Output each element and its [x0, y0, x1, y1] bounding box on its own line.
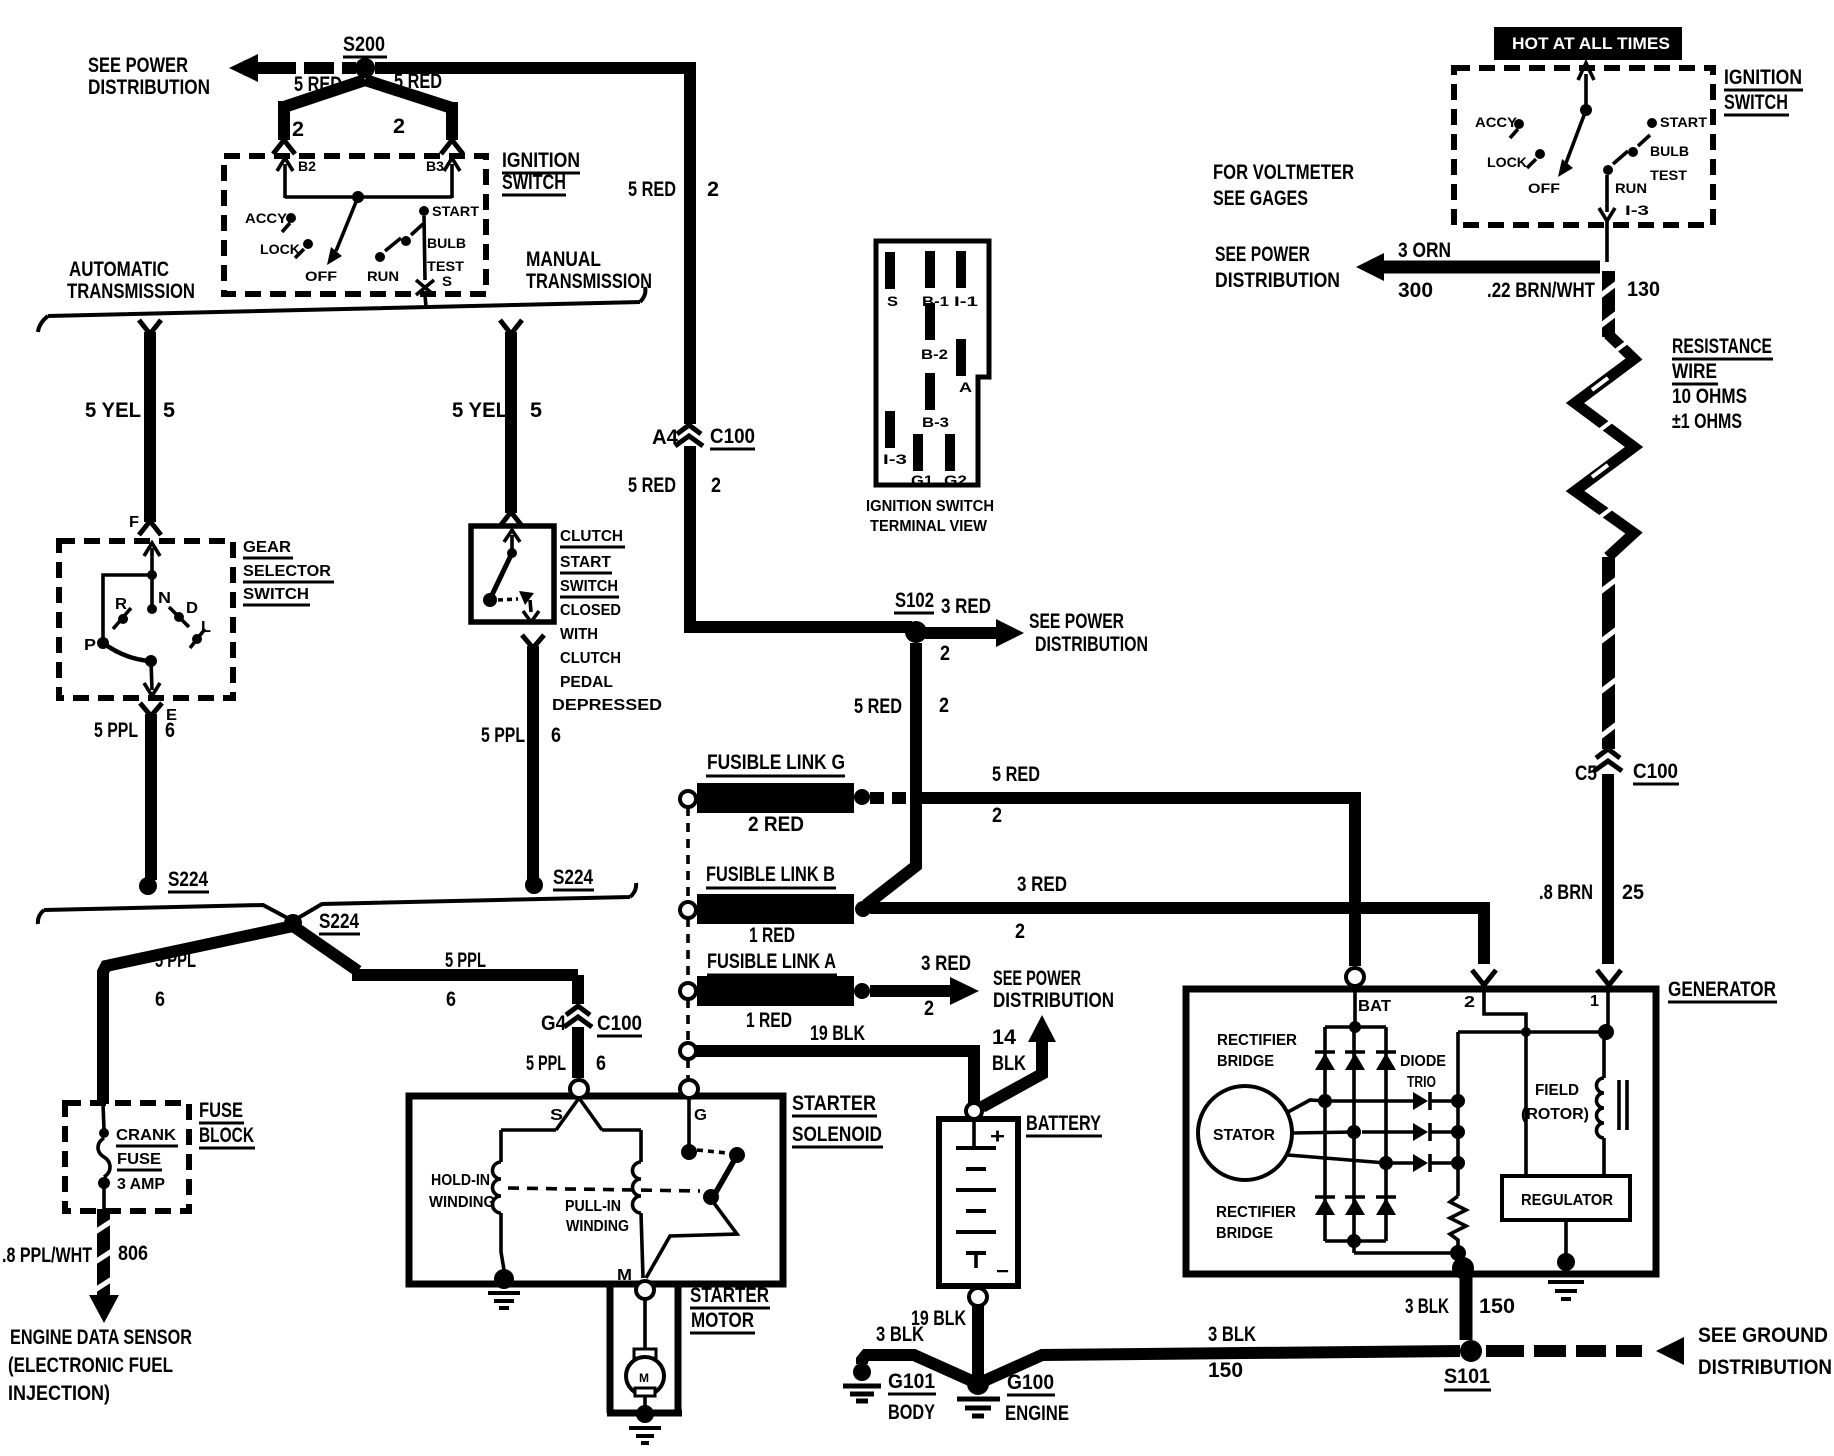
svg-text:WITH: WITH — [560, 626, 598, 643]
svg-text:SWITCH: SWITCH — [243, 586, 309, 603]
label SEE POWER DISTRIBUTION (top left) — [88, 54, 210, 99]
svg-text:1 RED: 1 RED — [749, 924, 795, 947]
wire: trio bus to terminal 1 — [1458, 986, 1608, 1032]
svg-text:3 BLK: 3 BLK — [876, 1323, 924, 1346]
wire: transmission select bus — [38, 287, 645, 332]
position RUN — [367, 238, 401, 284]
wire: S fork to windings — [501, 1098, 641, 1162]
svg-text:HOLD-IN: HOLD-IN — [431, 1172, 490, 1189]
terminal S — [570, 1080, 588, 1098]
diode trio bus — [1456, 1032, 1460, 1196]
svg-text:.8 PPL/WHT: .8 PPL/WHT — [2, 1244, 92, 1267]
svg-text:2: 2 — [924, 997, 934, 1020]
svg-text:GENERATOR: GENERATOR — [1668, 978, 1776, 1001]
svg-text:G1: G1 — [911, 472, 933, 488]
label FUSE BLOCK — [199, 1099, 255, 1148]
svg-text:S102: S102 — [895, 589, 934, 612]
svg-text:3 AMP: 3 AMP — [117, 1176, 165, 1193]
contact P — [84, 637, 109, 654]
pin B-2 — [925, 303, 935, 340]
svg-text:CRANK: CRANK — [116, 1127, 177, 1144]
svg-text:M: M — [639, 1371, 649, 1385]
svg-text:2: 2 — [1464, 994, 1475, 1011]
svg-text:BAT: BAT — [1358, 998, 1392, 1015]
wire: arrow S102 to power distribution — [925, 619, 1024, 647]
svg-text:FOR VOLTMETER: FOR VOLTMETER — [1213, 161, 1354, 184]
ignition switch (right) dashed box — [1454, 68, 1713, 225]
contact D — [169, 600, 198, 627]
label MANUAL TRANSMISSION — [526, 248, 652, 293]
svg-text:806: 806 — [118, 1242, 148, 1265]
svg-text:L: L — [201, 619, 211, 636]
node clutch pivot — [507, 548, 517, 558]
wire: movable contact to M — [646, 1199, 737, 1278]
svg-text:FUSIBLE LINK A: FUSIBLE LINK A — [707, 950, 836, 973]
svg-text:300: 300 — [1398, 279, 1433, 302]
svg-text:150: 150 — [1208, 1359, 1243, 1382]
svg-text:START: START — [560, 554, 612, 571]
pin A — [956, 339, 966, 376]
fusible link A — [680, 950, 870, 1032]
resistance wire zigzag — [1575, 334, 1634, 557]
node pivot — [145, 655, 157, 667]
svg-text:2: 2 — [940, 642, 950, 665]
svg-text:3 BLK: 3 BLK — [1405, 1295, 1449, 1318]
label BATTERY — [1026, 1112, 1102, 1136]
pin I-1 — [956, 251, 966, 288]
node rotor pivot (right switch) — [1580, 104, 1592, 116]
svg-text:SEE POWER: SEE POWER — [88, 54, 188, 77]
svg-text:CLUTCH: CLUTCH — [560, 528, 623, 545]
wire: B2-B3 common bar — [285, 195, 452, 199]
pin G1 — [913, 434, 923, 471]
svg-text:RESISTANCE: RESISTANCE — [1672, 335, 1772, 358]
svg-text:2: 2 — [707, 178, 719, 201]
wire: hold-in to ground — [501, 1213, 504, 1270]
pin G2 — [945, 434, 955, 471]
svg-text:ENGINE: ENGINE — [1005, 1402, 1069, 1425]
generator ground junction node — [1347, 1234, 1361, 1248]
terminal arrow inside clutch switch — [504, 530, 520, 553]
svg-text:2: 2 — [711, 474, 721, 497]
svg-text:DISTRIBUTION: DISTRIBUTION — [88, 76, 210, 99]
dashed contact gap — [697, 1150, 727, 1153]
svg-text:P: P — [84, 637, 96, 654]
svg-text:SWITCH: SWITCH — [502, 171, 566, 194]
svg-text:−: − — [996, 1260, 1009, 1283]
svg-text:6: 6 — [155, 988, 165, 1011]
svg-text:B-3: B-3 — [922, 414, 949, 430]
regulator ground — [1548, 1220, 1584, 1299]
fusible link B — [680, 863, 871, 947]
label AUTOMATIC TRANSMISSION — [67, 258, 195, 303]
splice S101 — [1444, 1340, 1491, 1390]
pin S — [885, 252, 895, 289]
wire: dashed arrow to power distribution — [229, 54, 356, 82]
svg-text:CLOSED: CLOSED — [560, 602, 621, 619]
svg-text:ENGINE DATA SENSOR: ENGINE DATA SENSOR — [10, 1326, 192, 1349]
svg-text:5 PPL: 5 PPL — [445, 949, 486, 972]
svg-text:SWITCH: SWITCH — [1724, 91, 1788, 114]
svg-text:HOT AT ALL TIMES: HOT AT ALL TIMES — [1512, 34, 1670, 53]
svg-text:FIELD: FIELD — [1535, 1082, 1579, 1099]
svg-text:6: 6 — [551, 724, 561, 747]
ignition switch (top left) dashed box — [224, 156, 486, 294]
dashed wire joining fusible link feed ends — [686, 807, 690, 1080]
svg-text:R: R — [115, 596, 127, 613]
position RUN (right) — [1603, 151, 1647, 196]
svg-text:5 RED: 5 RED — [394, 70, 442, 93]
svg-text:FUSIBLE LINK B: FUSIBLE LINK B — [706, 863, 835, 886]
svg-text:2: 2 — [992, 804, 1002, 827]
svg-text:PEDAL: PEDAL — [560, 674, 613, 691]
svg-text:WINDING: WINDING — [566, 1218, 629, 1235]
wire: to P contact — [103, 575, 152, 638]
label SEE POWER DISTRIBUTION (S102) — [1029, 610, 1148, 656]
position ACCY (right) — [1475, 114, 1524, 138]
label SEE POWER DISTRIBUTION (right) — [1215, 243, 1340, 292]
terminal BAT — [1346, 968, 1364, 986]
svg-text:WINDING: WINDING — [429, 1194, 495, 1211]
label CRANK FUSE 3 AMP — [116, 1127, 178, 1193]
svg-text:BULB: BULB — [1650, 143, 1689, 159]
terminal G — [680, 1080, 698, 1098]
svg-text:AUTOMATIC: AUTOMATIC — [69, 258, 169, 281]
regulator box — [1502, 1176, 1630, 1220]
svg-text:SELECTOR: SELECTOR — [243, 563, 331, 580]
svg-text:GEAR: GEAR — [243, 539, 291, 556]
wire: hatched .22 BRN/WHT down — [1600, 271, 1617, 337]
ground at solenoid — [488, 1269, 520, 1308]
svg-text:IGNITION SWITCH: IGNITION SWITCH — [866, 498, 994, 515]
svg-text:C100: C100 — [1633, 760, 1678, 783]
svg-text:SEE GAGES: SEE GAGES — [1213, 187, 1308, 210]
wire: terminal 2 to regulator — [1484, 986, 1526, 1176]
rectifier columns — [1325, 1027, 1386, 1241]
svg-text:BATTERY: BATTERY — [1026, 1112, 1101, 1135]
wire: tent split below S200 (5 RED feeds B2/B3) — [284, 80, 452, 140]
dashed closed position — [498, 599, 518, 600]
svg-text:G100: G100 — [1007, 1371, 1054, 1394]
switch rotor lever to OFF — [327, 197, 358, 265]
svg-text:G: G — [694, 1107, 707, 1124]
svg-text:G4: G4 — [541, 1012, 566, 1035]
svg-text:IGNITION: IGNITION — [502, 149, 580, 172]
starter solenoid box — [409, 1096, 783, 1284]
svg-text:RECTIFIER: RECTIFIER — [1217, 1032, 1297, 1049]
node S200 — [355, 58, 375, 78]
svg-text:DISTRIBUTION: DISTRIBUTION — [993, 989, 1114, 1012]
node fixed contact A — [681, 1144, 697, 1160]
bottom diodes — [1315, 1197, 1396, 1215]
svg-text:RUN: RUN — [367, 268, 399, 284]
wire: 3 RED link B to generator terminal 2 — [870, 902, 1484, 964]
wire: pull-in to M — [641, 1213, 643, 1278]
svg-text:5 PPL: 5 PPL — [481, 724, 525, 747]
svg-text:PULL-IN: PULL-IN — [565, 1198, 621, 1215]
svg-text:I-3: I-3 — [883, 451, 907, 467]
wire: I-3 output down through box — [1599, 175, 1649, 262]
svg-text:G101: G101 — [888, 1370, 935, 1393]
svg-text:.8 BRN: .8 BRN — [1539, 881, 1593, 904]
wire: 3 BLK to G101 — [862, 1355, 972, 1381]
svg-text:ACCY: ACCY — [1475, 114, 1518, 130]
position START (right) — [1647, 114, 1707, 130]
svg-text:I-3: I-3 — [1625, 202, 1649, 218]
fixed contact arrowhead — [519, 591, 534, 605]
svg-text:TRIO: TRIO — [1407, 1074, 1436, 1091]
node movable contact — [703, 1189, 719, 1205]
label RESISTANCE WIRE 10 OHMS +/-1 OHMS — [1672, 335, 1773, 433]
solenoid contact from G — [687, 1098, 691, 1146]
label SEE POWER DISTRIBUTION (link A) — [993, 967, 1114, 1012]
node clutch open contact — [483, 593, 497, 607]
svg-text:5 YEL: 5 YEL — [452, 399, 508, 422]
svg-text:2 RED: 2 RED — [748, 813, 804, 836]
wire: lower bus — [38, 883, 636, 924]
wire: to N contact — [150, 575, 154, 605]
svg-text:5 RED: 5 RED — [992, 763, 1040, 786]
wire: 5 PPL into solenoid S — [572, 1027, 584, 1078]
svg-text:OFF: OFF — [305, 268, 338, 284]
label RECTIFIER BRIDGE (bottom) — [1216, 1204, 1296, 1242]
svg-text:START: START — [1660, 114, 1707, 130]
connector G4 / C100 — [541, 1006, 642, 1036]
splice S224 (left) — [139, 868, 209, 895]
svg-text:IGNITION: IGNITION — [1724, 66, 1802, 89]
svg-text:RUN: RUN — [1615, 180, 1647, 196]
svg-text:1 RED: 1 RED — [746, 1009, 792, 1032]
wire: .8 PPL/WHT hatched to engine data sensor — [89, 1209, 119, 1323]
svg-text:2: 2 — [393, 115, 405, 138]
svg-text:C100: C100 — [710, 425, 755, 448]
svg-text:25: 25 — [1622, 881, 1644, 904]
svg-text:S: S — [442, 273, 452, 289]
splice S224 (center) — [284, 910, 360, 934]
clutch lever — [491, 553, 512, 597]
connector A4 / C100 — [652, 425, 755, 449]
pull-in winding coil — [633, 1162, 642, 1213]
svg-text:14: 14 — [992, 1026, 1016, 1049]
label FOR VOLTMETER SEE GAGES — [1213, 161, 1354, 210]
wire: arrow 14 BLK to power distribution — [982, 1015, 1056, 1107]
svg-text:DIODE: DIODE — [1400, 1053, 1446, 1070]
svg-text:OFF: OFF — [1528, 180, 1561, 196]
svg-text:2: 2 — [292, 118, 304, 141]
label GEAR SELECTOR SWITCH — [243, 539, 334, 605]
svg-text:B2: B2 — [298, 158, 316, 174]
svg-text:S: S — [887, 293, 898, 309]
svg-text:DISTRIBUTION: DISTRIBUTION — [1698, 1356, 1832, 1379]
wire: hatched below zigzag to C5 — [1600, 557, 1617, 749]
solenoid lever — [712, 1152, 739, 1199]
label ENGINE DATA SENSOR (ELECTRONIC FUEL INJECTION) — [8, 1326, 192, 1405]
svg-text:I-1: I-1 — [954, 293, 978, 309]
crank fuse element — [98, 1104, 110, 1209]
svg-text:B3: B3 — [426, 158, 444, 174]
position BULB TEST (right) — [1628, 135, 1689, 183]
generator box — [1186, 989, 1656, 1274]
contact R — [113, 596, 131, 629]
svg-text:START: START — [432, 203, 479, 219]
fuse block dashed box — [65, 1103, 189, 1211]
wire: BAT stem and top rail — [1325, 986, 1386, 1027]
wire: 5 PPL from gear selector to S224 — [140, 703, 162, 880]
wire: contact to bottom arrow — [523, 600, 539, 622]
terminal B3 arrow inside switch — [426, 158, 460, 198]
node fixed contact B — [729, 1147, 745, 1163]
splice S102 — [894, 589, 934, 643]
svg-text:SEE POWER: SEE POWER — [1215, 243, 1310, 266]
svg-text:ACCY: ACCY — [245, 210, 288, 226]
svg-text:N: N — [158, 590, 171, 607]
svg-text:M: M — [617, 1267, 632, 1284]
wire: .8 BRN to generator terminal 1 — [1602, 774, 1614, 964]
label IGNITION SWITCH (right) — [1724, 66, 1803, 115]
wire: pivot to E terminal arrow — [144, 661, 160, 696]
svg-text:S224: S224 — [553, 866, 593, 889]
label HOLD-IN WINDING — [429, 1172, 495, 1211]
position START — [419, 203, 479, 219]
starter motor enclosure — [607, 1284, 682, 1413]
svg-text:BLOCK: BLOCK — [199, 1124, 254, 1147]
selector lever P to pivot — [103, 643, 150, 661]
contact L — [190, 619, 211, 648]
rotor lever to OFF (right switch) — [1558, 110, 1586, 177]
wire: 5 YEL manual branch — [500, 320, 522, 526]
svg-text:REGULATOR: REGULATOR — [1521, 1192, 1613, 1209]
terminal 2 fishtail — [1464, 970, 1496, 1011]
svg-text:TRANSMISSION: TRANSMISSION — [67, 280, 195, 303]
svg-text:FUSIBLE LINK G: FUSIBLE LINK G — [707, 751, 845, 774]
svg-text:SEE POWER: SEE POWER — [1029, 610, 1124, 633]
svg-text:5 RED: 5 RED — [628, 474, 676, 497]
svg-text:3 BLK: 3 BLK — [1208, 1323, 1256, 1346]
svg-text:BULB: BULB — [427, 235, 466, 251]
ground G100 junction — [967, 1373, 989, 1395]
svg-text:.22 BRN/WHT: .22 BRN/WHT — [1487, 279, 1595, 302]
svg-text:6: 6 — [165, 719, 175, 742]
svg-text:6: 6 — [596, 1052, 606, 1075]
svg-text:BODY: BODY — [888, 1401, 935, 1424]
position BULB TEST — [401, 224, 466, 289]
svg-text:A4: A4 — [652, 426, 678, 449]
stator circle — [1198, 1086, 1292, 1180]
wire: 3 BLK 150 to S101 — [984, 1351, 1460, 1381]
wire: 5 PPL from clutch switch to S224 — [522, 635, 544, 879]
svg-text:19 BLK: 19 BLK — [810, 1022, 865, 1045]
svg-text:130: 130 — [1627, 278, 1660, 301]
battery cells — [956, 1119, 996, 1268]
svg-text:3 RED: 3 RED — [921, 952, 971, 975]
terminal 1 fishtail — [1590, 970, 1621, 1010]
svg-text:FUSE: FUSE — [199, 1099, 243, 1122]
wire: S200 to right and down to S102 — [375, 62, 912, 633]
field rotor coil — [1602, 1032, 1606, 1078]
HOT AT ALL TIMES banner — [1494, 27, 1682, 60]
hold-in winding coil — [493, 1162, 502, 1213]
wire: 5 RED below A4 — [684, 446, 696, 633]
field core bars — [1619, 1080, 1627, 1130]
label SEE GROUND DISTRIBUTION — [1698, 1324, 1832, 1379]
contact N — [147, 604, 157, 614]
terminal F arrow inside — [144, 543, 160, 572]
svg-text:G2: G2 — [944, 472, 967, 488]
svg-text:TRANSMISSION: TRANSMISSION — [526, 270, 652, 293]
svg-text:RECTIFIER: RECTIFIER — [1216, 1204, 1296, 1221]
svg-text:BRIDGE: BRIDGE — [1216, 1225, 1273, 1242]
svg-text:S101: S101 — [1444, 1365, 1490, 1388]
svg-text:TERMINAL VIEW: TERMINAL VIEW — [870, 518, 987, 535]
label PULL-IN WINDING — [565, 1198, 629, 1235]
ground G101 BODY — [843, 1363, 936, 1424]
svg-text:D: D — [186, 600, 198, 617]
svg-text:C100: C100 — [597, 1012, 642, 1035]
svg-text:STARTER: STARTER — [690, 1284, 769, 1307]
svg-text:C5: C5 — [1575, 762, 1597, 785]
label IGNITION SWITCH — [502, 149, 580, 195]
svg-text:STATOR: STATOR — [1213, 1127, 1275, 1144]
label STARTER SOLENOID — [792, 1092, 883, 1147]
svg-text:DISTRIBUTION: DISTRIBUTION — [1035, 633, 1148, 656]
svg-text:MANUAL: MANUAL — [526, 248, 601, 271]
internal resistor — [1450, 1196, 1466, 1250]
splice S224 (right) — [525, 866, 594, 894]
wire: 5 RED S102 down to fusible link B — [866, 643, 916, 905]
label STARTER MOTOR — [690, 1284, 770, 1333]
svg-text:2: 2 — [1015, 920, 1025, 943]
wire: S terminal down with X through box edge — [416, 216, 434, 307]
wire: S101 up to generator — [1460, 1276, 1473, 1340]
label FIELD (ROTOR) — [1521, 1082, 1589, 1123]
label IGNITION SWITCH TERMINAL VIEW — [866, 498, 994, 535]
svg-text:3 RED: 3 RED — [941, 595, 991, 618]
terminal M — [636, 1281, 654, 1299]
svg-text:5 RED: 5 RED — [294, 73, 342, 96]
svg-text:DEPRESSED: DEPRESSED — [552, 697, 662, 714]
svg-text:SWITCH: SWITCH — [560, 578, 618, 595]
svg-text:5 RED: 5 RED — [628, 178, 676, 201]
svg-text:LOCK: LOCK — [1487, 154, 1527, 170]
svg-text:INJECTION): INJECTION) — [8, 1382, 110, 1405]
battery + terminal — [966, 1103, 982, 1119]
phase junction nodes — [1318, 1094, 1332, 1108]
label GENERATOR — [1668, 978, 1777, 1002]
svg-text:5 RED: 5 RED — [854, 695, 902, 718]
label RECTIFIER BRIDGE (top) — [1217, 1032, 1297, 1070]
svg-text:150: 150 — [1479, 1295, 1515, 1318]
svg-text:(ROTOR): (ROTOR) — [1521, 1106, 1589, 1123]
svg-text:FUSE: FUSE — [117, 1151, 161, 1168]
pin B-1 — [925, 251, 935, 288]
node below F — [147, 570, 157, 580]
svg-text:5: 5 — [530, 399, 542, 422]
svg-text:10 OHMS: 10 OHMS — [1672, 385, 1747, 408]
connector C5 / C100 — [1575, 749, 1679, 785]
svg-text:LOCK: LOCK — [260, 241, 300, 257]
wire: 5 RED link G to generator BAT — [870, 792, 1355, 966]
svg-text:MOTOR: MOTOR — [691, 1309, 754, 1332]
label DIODE TRIO — [1400, 1053, 1446, 1091]
svg-text:BRIDGE: BRIDGE — [1217, 1053, 1274, 1070]
wire: 5 YEL automatic branch — [139, 320, 161, 535]
top diodes — [1315, 1052, 1396, 1070]
svg-text:5 PPL: 5 PPL — [94, 719, 138, 742]
svg-text:CLUTCH: CLUTCH — [560, 650, 621, 667]
svg-text:SEE GROUND: SEE GROUND — [1698, 1324, 1828, 1347]
svg-text:6: 6 — [446, 988, 456, 1011]
fusible link G — [680, 751, 870, 836]
